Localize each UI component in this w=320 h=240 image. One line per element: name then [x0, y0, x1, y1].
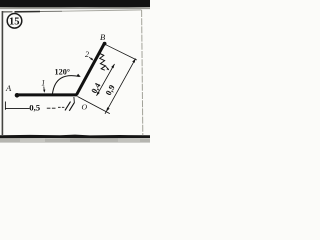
- svg-text:2: 2: [85, 50, 89, 59]
- svg-text:120°: 120°: [55, 67, 71, 76]
- svg-text:O: O: [82, 102, 88, 111]
- svg-text:1: 1: [41, 79, 45, 88]
- svg-text:B: B: [100, 32, 105, 42]
- svg-text:15: 15: [9, 17, 20, 28]
- svg-text:A: A: [5, 83, 12, 93]
- svg-text:0,5: 0,5: [29, 103, 41, 113]
